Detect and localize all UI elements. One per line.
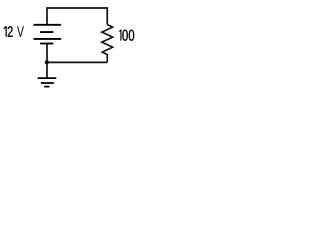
wire bottom: junction to resistor bottom [47, 61, 108, 63]
junction dot node [45, 60, 49, 64]
ground symbol bar 3 [44, 86, 49, 88]
battery V1 plate negative short bottom [40, 43, 53, 45]
battery V1 plate positive long top [34, 24, 62, 26]
wire top: left node to resistor top [47, 8, 107, 25]
label 12 V [4, 26, 24, 37]
label 100 [119, 30, 134, 41]
ground symbol bar 2 [41, 82, 54, 84]
battery V1 plate positive long lower [34, 38, 62, 40]
battery V1 plate negative short [40, 31, 53, 33]
wire battery negative lead [46, 44, 48, 63]
ground lead [46, 62, 48, 78]
ground symbol bar 1 [38, 77, 57, 79]
resistor R1 zigzag [102, 25, 113, 63]
